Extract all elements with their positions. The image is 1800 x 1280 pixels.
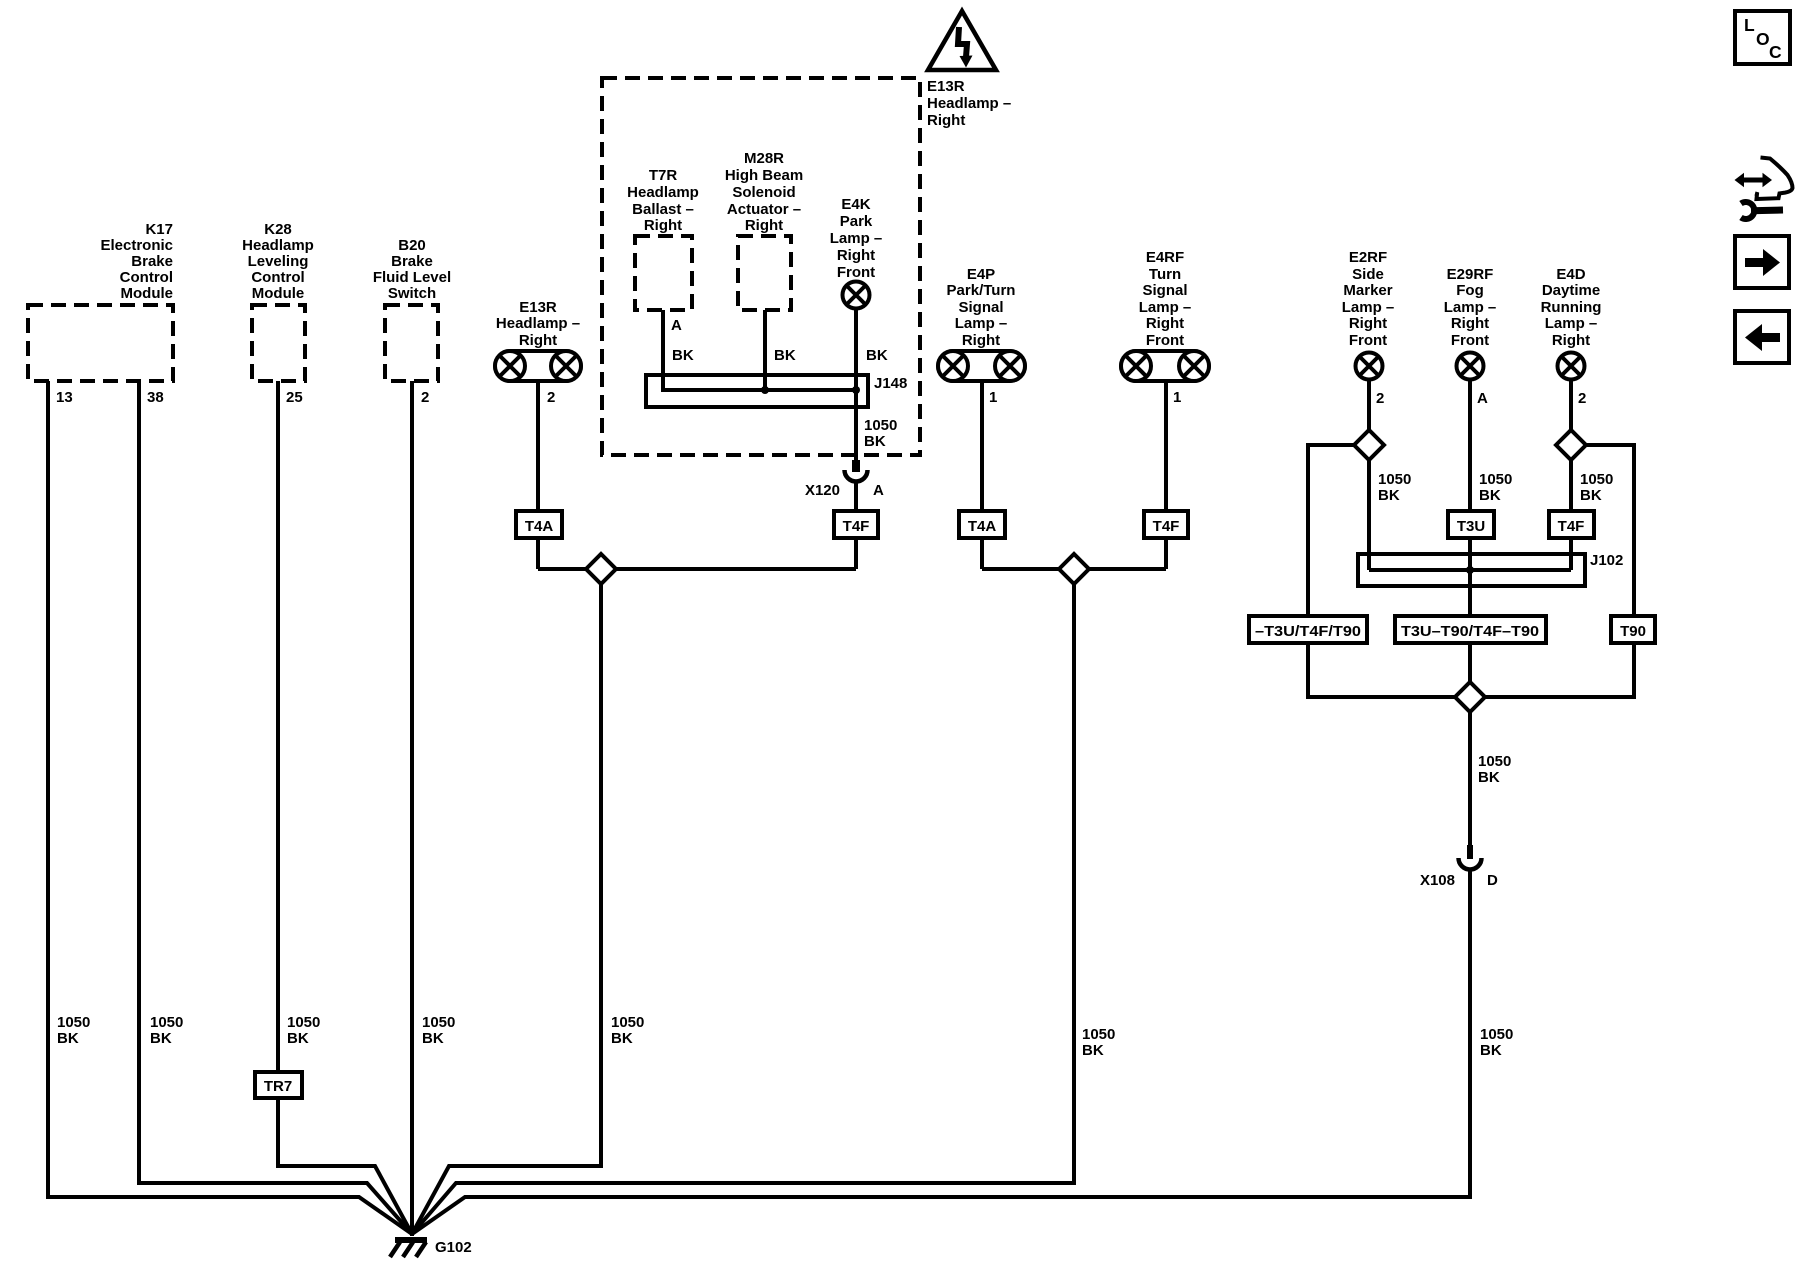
svg-text:Lamp –: Lamp – bbox=[1342, 299, 1395, 316]
svg-text:Right: Right bbox=[745, 217, 783, 234]
svg-text:BK: BK bbox=[1082, 1042, 1104, 1059]
svg-text:1050: 1050 bbox=[287, 1014, 320, 1031]
svg-text:Front: Front bbox=[1451, 332, 1489, 349]
svg-text:Switch: Switch bbox=[388, 285, 436, 302]
label K17 bbox=[100, 221, 173, 302]
svg-text:1: 1 bbox=[1173, 389, 1181, 406]
svg-text:E2RF: E2RF bbox=[1349, 249, 1387, 266]
svg-text:T7R: T7R bbox=[649, 167, 678, 184]
wire K28 pin 25 through TR7 to G102 bbox=[278, 381, 412, 1234]
module K17 Electronic Brake Control Module bbox=[28, 305, 173, 381]
splice diamond E2RF bbox=[1354, 430, 1384, 460]
wire T4A to T4F horizontal with splice bbox=[538, 567, 856, 571]
warning triangle bbox=[928, 11, 996, 70]
svg-text:TR7: TR7 bbox=[264, 1078, 292, 1095]
wire splice to G102 bbox=[412, 569, 601, 1234]
junction dot J148 at M28R bbox=[761, 386, 769, 394]
svg-text:1050: 1050 bbox=[1580, 471, 1613, 488]
svg-text:2: 2 bbox=[1376, 390, 1384, 407]
wire E13R lamp pin 2 to T4A bbox=[536, 382, 540, 569]
svg-text:Lamp –: Lamp – bbox=[1545, 315, 1598, 332]
label E4K bbox=[830, 196, 883, 281]
terminal box T3U bbox=[1448, 511, 1494, 538]
svg-text:E4P: E4P bbox=[967, 266, 995, 283]
svg-text:Lamp –: Lamp – bbox=[830, 230, 883, 247]
svg-text:Headlamp –: Headlamp – bbox=[927, 95, 1011, 112]
svg-text:–T3U/T4F/T90: –T3U/T4F/T90 bbox=[1255, 623, 1361, 640]
label B20 bbox=[373, 237, 451, 302]
svg-text:Front: Front bbox=[837, 264, 875, 281]
svg-text:1050: 1050 bbox=[150, 1014, 183, 1031]
svg-text:Ballast –: Ballast – bbox=[632, 201, 694, 218]
svg-text:E13R: E13R bbox=[519, 299, 557, 316]
svg-text:Lamp –: Lamp – bbox=[955, 315, 1008, 332]
svg-text:BK: BK bbox=[150, 1030, 172, 1047]
wire K17 pin 38 to G102 bbox=[139, 381, 412, 1234]
svg-text:Side: Side bbox=[1352, 266, 1384, 283]
svg-text:Right: Right bbox=[1451, 315, 1489, 332]
svg-text:J102: J102 bbox=[1590, 552, 1623, 569]
svg-text:Right: Right bbox=[1552, 332, 1590, 349]
svg-text:1050: 1050 bbox=[1479, 471, 1512, 488]
svg-text:X108: X108 bbox=[1420, 872, 1455, 889]
svg-text:Brake: Brake bbox=[391, 253, 433, 270]
svg-text:BK: BK bbox=[774, 347, 796, 364]
lamp E4P Park/Turn Signal symbol bbox=[938, 351, 1025, 381]
terminal box T4F middle bbox=[1144, 511, 1188, 538]
svg-text:High Beam: High Beam bbox=[725, 167, 803, 184]
svg-text:2: 2 bbox=[421, 389, 429, 406]
label E4D bbox=[1541, 266, 1602, 349]
svg-text:BK: BK bbox=[866, 347, 888, 364]
terminal box T4F left bbox=[834, 511, 878, 538]
label T7R bbox=[627, 167, 699, 234]
option box -T3U/T4F/T90 bbox=[1249, 616, 1367, 643]
svg-text:BK: BK bbox=[611, 1030, 633, 1047]
svg-text:1: 1 bbox=[989, 389, 997, 406]
wire middle splice to G102 bbox=[412, 569, 1074, 1234]
wire E4RF lamp pin 1 to T4F bbox=[1164, 382, 1168, 569]
fuse box TR7 bbox=[255, 1072, 302, 1098]
svg-text:Signal: Signal bbox=[1142, 282, 1187, 299]
svg-text:A: A bbox=[1477, 390, 1488, 407]
wire B20 pin 2 to G102 bbox=[410, 381, 414, 1236]
splice pack J148 bbox=[646, 375, 868, 407]
svg-text:E29RF: E29RF bbox=[1447, 266, 1494, 283]
svg-text:T3U: T3U bbox=[1457, 518, 1485, 535]
switch B20 Brake Fluid Level Switch bbox=[385, 305, 438, 381]
wire E4D lamp pin 2 to J102 bbox=[1569, 381, 1573, 570]
wire E4K lamp to J148 and X120 bbox=[854, 310, 858, 461]
svg-text:X120: X120 bbox=[805, 482, 840, 499]
svg-text:BK: BK bbox=[57, 1030, 79, 1047]
svg-text:E4D: E4D bbox=[1556, 266, 1585, 283]
svg-text:Fog: Fog bbox=[1456, 282, 1484, 299]
wire T7R pin A to J148 bbox=[663, 310, 856, 390]
svg-text:2: 2 bbox=[547, 389, 555, 406]
svg-text:E4K: E4K bbox=[841, 196, 870, 213]
svg-text:Signal: Signal bbox=[958, 299, 1003, 316]
label E13R assembly bbox=[927, 78, 1011, 129]
lamp E2RF Side Marker symbol bbox=[1356, 353, 1383, 380]
svg-text:M28R: M28R bbox=[744, 150, 784, 167]
option box T90 bbox=[1611, 616, 1655, 643]
splice pack J102 bbox=[1358, 554, 1585, 586]
svg-text:O: O bbox=[1756, 29, 1770, 49]
svg-text:Leveling: Leveling bbox=[248, 253, 309, 270]
icon sketch with arrow and wrench bbox=[1735, 158, 1793, 220]
svg-text:C: C bbox=[1769, 42, 1782, 62]
svg-text:A: A bbox=[671, 317, 682, 334]
actuator M28R dashed box bbox=[738, 236, 791, 310]
option box T3U-T90/T4F-T90 bbox=[1395, 616, 1546, 643]
svg-text:BK: BK bbox=[864, 433, 886, 450]
svg-text:BK: BK bbox=[1479, 487, 1501, 504]
svg-text:T4F: T4F bbox=[1558, 518, 1585, 535]
splice diamond bottom right bbox=[1455, 682, 1485, 712]
wire E2RF lamp pin 2 to splice bbox=[1367, 381, 1371, 570]
svg-text:T4F: T4F bbox=[1153, 518, 1180, 535]
svg-text:Lamp –: Lamp – bbox=[1139, 299, 1192, 316]
splice diamond middle section bbox=[1059, 554, 1089, 584]
ballast T7R dashed box bbox=[635, 236, 692, 310]
terminal box T4A middle bbox=[959, 511, 1005, 538]
svg-text:1050: 1050 bbox=[864, 417, 897, 434]
svg-text:1050: 1050 bbox=[1378, 471, 1411, 488]
lamp E4K Park Lamp symbol bbox=[843, 282, 870, 309]
svg-text:Front: Front bbox=[1349, 332, 1387, 349]
headlamp assembly E13R dashed enclosure bbox=[602, 78, 920, 455]
junction dot J148 at E4K bbox=[852, 386, 860, 394]
wire X108 to G102 bbox=[412, 870, 1470, 1234]
svg-text:Right: Right bbox=[1146, 315, 1184, 332]
svg-text:2: 2 bbox=[1578, 390, 1586, 407]
svg-text:E4RF: E4RF bbox=[1146, 249, 1184, 266]
svg-text:1050: 1050 bbox=[1480, 1026, 1513, 1043]
label M28R bbox=[725, 150, 803, 234]
svg-text:Turn: Turn bbox=[1149, 266, 1181, 283]
label E2RF bbox=[1342, 249, 1395, 349]
svg-text:1050: 1050 bbox=[57, 1014, 90, 1031]
svg-text:BK: BK bbox=[1478, 769, 1500, 786]
splice diamond E4D bbox=[1556, 430, 1586, 460]
icon LOC box top right bbox=[1735, 11, 1790, 64]
svg-text:1050: 1050 bbox=[1478, 753, 1511, 770]
label E29RF bbox=[1444, 266, 1497, 349]
label E4P bbox=[947, 266, 1016, 349]
label E13R lamp bbox=[496, 299, 580, 349]
svg-text:BK: BK bbox=[287, 1030, 309, 1047]
svg-text:A: A bbox=[873, 482, 884, 499]
wire T4A to T4F horizontal middle bbox=[982, 567, 1166, 571]
svg-text:1050: 1050 bbox=[611, 1014, 644, 1031]
svg-text:13: 13 bbox=[56, 389, 73, 406]
svg-text:Headlamp: Headlamp bbox=[242, 237, 314, 254]
terminal box T4A left bbox=[516, 511, 562, 538]
lamp E13R Headlamp Right symbol bbox=[495, 351, 581, 381]
svg-text:1050: 1050 bbox=[1082, 1026, 1115, 1043]
svg-text:Right: Right bbox=[519, 332, 557, 349]
svg-text:Headlamp –: Headlamp – bbox=[496, 315, 580, 332]
svg-text:G102: G102 bbox=[435, 1239, 472, 1256]
terminal box T4F right bbox=[1549, 511, 1594, 538]
svg-text:Solenoid: Solenoid bbox=[732, 184, 795, 201]
label K28 bbox=[242, 221, 314, 302]
wire E2RF splice left branch bbox=[1308, 445, 1470, 697]
svg-text:J148: J148 bbox=[874, 375, 907, 392]
svg-text:B20: B20 bbox=[398, 237, 426, 254]
svg-text:Electronic: Electronic bbox=[100, 237, 173, 254]
lamp E4D Daytime Running Lamp symbol bbox=[1558, 353, 1585, 380]
svg-text:K17: K17 bbox=[145, 221, 173, 238]
svg-text:Front: Front bbox=[1146, 332, 1184, 349]
label E4RF bbox=[1139, 249, 1192, 349]
wire K17 pin 13 to G102 bbox=[48, 381, 412, 1234]
wire M28R to J148 bbox=[763, 310, 767, 390]
wire E4P lamp pin 1 to T4A bbox=[980, 382, 984, 569]
svg-text:Actuator –: Actuator – bbox=[727, 201, 801, 218]
svg-text:Headlamp: Headlamp bbox=[627, 184, 699, 201]
svg-text:BK: BK bbox=[1480, 1042, 1502, 1059]
svg-text:BK: BK bbox=[1378, 487, 1400, 504]
svg-text:Park: Park bbox=[840, 213, 873, 230]
svg-text:38: 38 bbox=[147, 389, 164, 406]
svg-text:BK: BK bbox=[672, 347, 694, 364]
svg-text:Fluid Level: Fluid Level bbox=[373, 269, 451, 286]
svg-text:K28: K28 bbox=[264, 221, 292, 238]
svg-text:E13R: E13R bbox=[927, 78, 965, 95]
svg-text:Brake: Brake bbox=[131, 253, 173, 270]
svg-text:Marker: Marker bbox=[1343, 282, 1392, 299]
wire E4D splice right branch through T90 bbox=[1470, 445, 1634, 697]
svg-text:T4F: T4F bbox=[843, 518, 870, 535]
svg-text:Right: Right bbox=[837, 247, 875, 264]
svg-text:Right: Right bbox=[644, 217, 682, 234]
svg-text:Control: Control bbox=[251, 269, 304, 286]
ground G102 symbol bbox=[390, 1240, 427, 1257]
svg-text:Right: Right bbox=[927, 112, 965, 129]
icon right arrow box bbox=[1735, 236, 1789, 288]
svg-text:Lamp –: Lamp – bbox=[1444, 299, 1497, 316]
connector X120 bbox=[845, 460, 868, 481]
lamp E29RF Fog Lamp symbol bbox=[1457, 353, 1484, 380]
svg-text:Module: Module bbox=[121, 285, 174, 302]
svg-text:Daytime: Daytime bbox=[1542, 282, 1600, 299]
svg-text:T4A: T4A bbox=[525, 518, 554, 535]
svg-text:Running: Running bbox=[1541, 299, 1602, 316]
wire J102 bus bbox=[1369, 568, 1571, 572]
svg-text:1050: 1050 bbox=[422, 1014, 455, 1031]
svg-text:BK: BK bbox=[1580, 487, 1602, 504]
wire X120 to T4F bbox=[854, 482, 858, 569]
splice diamond left section bbox=[586, 554, 616, 584]
svg-text:Module: Module bbox=[252, 285, 305, 302]
wire E29RF lamp pin A through T3U and J102 to bottom splice bbox=[1468, 381, 1472, 697]
svg-text:Control: Control bbox=[120, 269, 173, 286]
wire bottom splice to X108 bbox=[1468, 697, 1472, 845]
svg-text:D: D bbox=[1487, 872, 1498, 889]
svg-text:BK: BK bbox=[422, 1030, 444, 1047]
icon left arrow box bbox=[1735, 311, 1789, 363]
junction dot J102 at E29RF bbox=[1466, 566, 1474, 574]
connector X108 bbox=[1459, 845, 1482, 870]
module K28 Headlamp Leveling Control Module bbox=[252, 305, 305, 381]
svg-text:T90: T90 bbox=[1620, 623, 1646, 640]
lamp E4RF Turn Signal symbol bbox=[1121, 351, 1209, 381]
svg-text:Park/Turn: Park/Turn bbox=[947, 282, 1016, 299]
svg-text:25: 25 bbox=[286, 389, 303, 406]
svg-text:Right: Right bbox=[1349, 315, 1387, 332]
svg-text:Right: Right bbox=[962, 332, 1000, 349]
svg-text:L: L bbox=[1744, 15, 1755, 35]
svg-text:T3U–T90/T4F–T90: T3U–T90/T4F–T90 bbox=[1401, 623, 1539, 640]
svg-text:T4A: T4A bbox=[968, 518, 997, 535]
